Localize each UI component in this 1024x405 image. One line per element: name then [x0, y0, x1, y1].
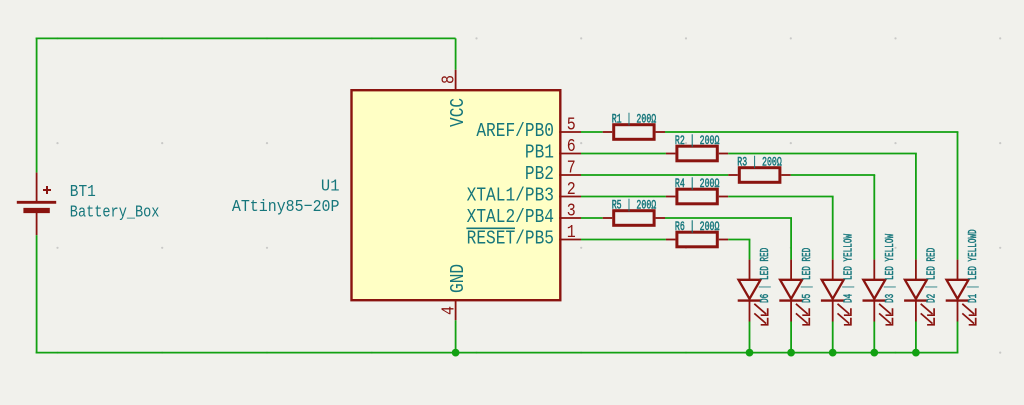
wire battery positive drop: [36, 38, 38, 173]
IC U1 ATtiny85-20P body: [352, 90, 561, 300]
wire R2 to LED column: [728, 153, 917, 155]
wire D6 cathode to bus: [749, 322, 751, 354]
wire pin to R4: [581, 196, 666, 198]
wire D1 cathode to bus: [957, 322, 959, 353]
svg-text:D5 | LED RED: D5 | LED RED: [800, 248, 814, 303]
pin 8 VCC: [455, 70, 457, 90]
svg-text:XTAL2/PB4: XTAL2/PB4: [467, 207, 554, 229]
svg-text:VCC: VCC: [448, 98, 470, 127]
junction GND bus: [452, 349, 460, 357]
wire vertical drop x=749.5: [749, 240, 751, 260]
wire D4 cathode to bus: [832, 322, 834, 354]
resistor R5: [603, 211, 665, 226]
junction D3 bus: [870, 349, 878, 357]
svg-text:AREF/PB0: AREF/PB0: [476, 121, 554, 143]
wire R1 to LED column: [665, 131, 958, 133]
svg-text:R5 | 200Ω: R5 | 200Ω: [612, 199, 657, 213]
LED D1: [946, 260, 976, 325]
wire pin to R3: [581, 174, 728, 176]
wire R4 to LED column: [728, 196, 833, 198]
pin 1 RESET/PB5 stub: [559, 239, 581, 241]
svg-text:R6 | 200Ω: R6 | 200Ω: [675, 221, 720, 235]
pin 3 XTAL2/PB4 stub: [559, 217, 581, 219]
svg-text:R1 | 200Ω: R1 | 200Ω: [612, 113, 657, 127]
pin 2 XTAL1/PB3 stub: [559, 196, 581, 198]
svg-text:6: 6: [567, 136, 576, 157]
svg-text:Battery_Box: Battery_Box: [70, 202, 160, 222]
LED D2: [904, 260, 934, 325]
wire GND pin to bus: [455, 320, 457, 352]
svg-text:7: 7: [567, 157, 576, 178]
wire R3 to LED column: [791, 174, 875, 176]
svg-text:D6 | LED RED: D6 | LED RED: [759, 248, 773, 303]
svg-text:GND: GND: [448, 264, 470, 293]
svg-text:PB1: PB1: [525, 142, 554, 164]
svg-text:4: 4: [438, 306, 459, 315]
resistor R6: [666, 232, 728, 247]
svg-text:ATtiny85−20P: ATtiny85−20P: [232, 197, 340, 216]
wire vertical drop x=915.9: [915, 154, 917, 260]
svg-text:D4 | LED YELLOW: D4 | LED YELLOW: [842, 233, 856, 303]
wire D3 cathode to bus: [873, 322, 875, 354]
LED D6: [738, 260, 768, 325]
wire VCC drop to pin 8: [455, 38, 457, 69]
pin 5 AREF/PB0 stub: [559, 131, 581, 133]
svg-text:R2 | 200Ω: R2 | 200Ω: [675, 135, 720, 149]
resistor R4: [666, 189, 728, 204]
wire vertical drop x=957.5: [957, 132, 959, 260]
wire battery negative to bus: [36, 235, 38, 353]
pin 4 GND: [455, 300, 457, 320]
wire R6 to LED column: [728, 239, 750, 241]
svg-text:3: 3: [567, 200, 576, 221]
wire D2 cathode to bus: [915, 322, 917, 354]
wire D5 cathode to bus: [790, 322, 792, 354]
pin 7 PB2 stub: [559, 174, 581, 176]
svg-text:U1: U1: [321, 176, 340, 196]
wire vertical drop x=791.1: [790, 218, 792, 260]
wire vertical drop x=832.7: [832, 197, 834, 260]
junction D5 bus: [787, 349, 795, 357]
svg-text:PB2: PB2: [525, 164, 554, 186]
svg-text:5: 5: [567, 114, 576, 135]
wire R5 to LED column: [665, 217, 792, 219]
LED D3: [863, 260, 893, 325]
junction D4 bus: [829, 349, 837, 357]
svg-text:2: 2: [567, 179, 576, 200]
wire pin to R1: [581, 131, 603, 133]
svg-text:D2 | LED RED: D2 | LED RED: [925, 248, 939, 303]
LED D4: [821, 260, 851, 325]
LED D5: [779, 260, 809, 325]
svg-text:1: 1: [567, 222, 576, 243]
resistor R2: [666, 146, 728, 161]
svg-text:RESET/PB5: RESET/PB5: [467, 228, 554, 250]
svg-text:R3 | 200Ω: R3 | 200Ω: [737, 156, 782, 170]
junction D2 bus: [912, 349, 920, 357]
wire pin to R2: [581, 153, 666, 155]
svg-text:R4 | 200Ω: R4 | 200Ω: [675, 178, 720, 192]
svg-text:D1 | LED YELLOWD: D1 | LED YELLOWD: [967, 229, 981, 303]
resistor R1: [603, 125, 665, 140]
junction D6 bus: [746, 349, 754, 357]
overline RESET: [466, 227, 515, 229]
resistor R3: [728, 168, 791, 183]
wire pin to R6: [581, 239, 666, 241]
wire VCC top rail: [36, 37, 456, 39]
svg-text:D3 | LED YELLOW: D3 | LED YELLOW: [883, 233, 897, 303]
battery BT1: [17, 173, 56, 236]
wire ground bus: [36, 352, 959, 354]
pin 6 PB1 stub: [559, 153, 581, 155]
wire pin to R5: [581, 217, 603, 219]
wire vertical drop x=874.3: [873, 175, 875, 260]
svg-text:8: 8: [438, 75, 459, 84]
svg-text:BT1: BT1: [70, 182, 96, 201]
svg-text:XTAL1/PB3: XTAL1/PB3: [467, 185, 554, 207]
